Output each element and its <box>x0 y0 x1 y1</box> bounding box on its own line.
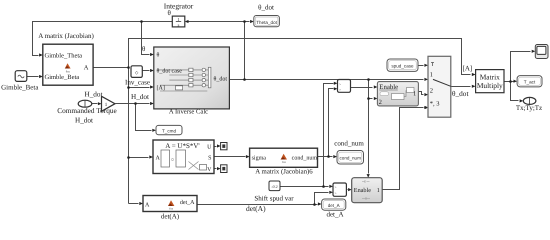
svg-text:A Inverse Calc: A Inverse Calc <box>169 109 208 116</box>
svg-text:2: 2 <box>379 99 382 106</box>
svg-text:U: U <box>207 145 212 151</box>
svg-text:T_act: T_act <box>524 79 536 84</box>
svg-text:T_cmd: T_cmd <box>162 129 176 134</box>
wire Inv_case constant to theta_dot case port <box>143 70 150 72</box>
wire SVD V output to terminator <box>215 168 217 170</box>
svg-text:θ_dot: θ_dot <box>258 4 274 12</box>
arrowhead into Gimble_Beta port <box>39 75 43 78</box>
constant -0.2 (Shift spud var) <box>254 181 294 202</box>
junction shift spud var <box>322 185 325 188</box>
arrowhead into mux input 2 <box>334 87 338 90</box>
matrix multiply block <box>476 70 504 93</box>
svg-text:fcn: fcn <box>169 207 173 210</box>
svg-text:Gimble_Beta: Gimble_Beta <box>1 83 39 91</box>
arrowhead into A Inverse port 4 <box>150 102 154 105</box>
svg-text:s: s <box>178 22 180 27</box>
svg-text:det(A): det(A) <box>246 204 266 213</box>
goto T_act <box>517 76 542 87</box>
svg-text:[A]: [A] <box>463 65 473 73</box>
subsystem Enable <box>377 82 418 106</box>
arrowhead into Enable input 1 <box>374 85 378 88</box>
junction H_dot to T_cmd <box>134 102 137 105</box>
wire A net: from Gimble output, riser x=128, top run y=38 to Matrix Multiply, branches to [A] port, SVD, det(A) <box>94 39 471 204</box>
scope block <box>535 45 548 59</box>
junction on theta wire <box>140 20 143 23</box>
arrowhead into Enable input 2 <box>374 97 378 100</box>
svg-text:A matrix (Jacobian): A matrix (Jacobian) <box>38 32 94 40</box>
outport Tx;Ty;Tz <box>516 97 542 112</box>
junction det_A <box>313 203 316 206</box>
arrowhead into T_act <box>514 80 518 83</box>
arrowhead into theta_dot case port <box>150 69 154 72</box>
goto cond_num <box>337 151 364 165</box>
svg-text:[A]: [A] <box>157 85 165 92</box>
svg-text:A: A <box>84 65 89 72</box>
goto T_cmd <box>156 125 182 134</box>
junction theta_dot top <box>243 20 246 23</box>
svg-text:cond_num: cond_num <box>334 139 364 147</box>
svg-text:spud_case: spud_case <box>391 63 414 68</box>
junction theta_dot at enable branch <box>367 78 370 81</box>
wire Gimble_Beta source to Gimble block <box>27 76 39 78</box>
svg-text:2: 2 <box>430 88 433 95</box>
junction A to SVD <box>127 156 130 159</box>
matlab fcn icon in Gimble block <box>65 63 71 73</box>
inport H_dot (Commanded Torque) <box>57 90 117 124</box>
svg-text:Theta_dot: Theta_dot <box>256 20 277 25</box>
integrator block 1/s (flipped) <box>172 16 185 27</box>
arrowhead into A Inverse [A] port <box>150 85 154 88</box>
arrowhead into det_A goto <box>318 202 322 205</box>
arrowhead into bottom mux input 1 <box>329 185 333 188</box>
matlab function block sigma/cond_num <box>250 148 318 167</box>
svg-text:A: A <box>156 155 161 161</box>
wire switch output theta_dot to Matrix Multiply input 2 <box>451 86 471 88</box>
svg-text:V: V <box>207 167 212 173</box>
arrowhead into T_cmd goto <box>152 129 156 132</box>
terminator for U <box>221 143 227 150</box>
svg-text:Tx;Ty;Tz: Tx;Ty;Tz <box>516 104 542 112</box>
arrowhead into bottom mux input 2 <box>329 191 333 194</box>
svg-text:A = U*S*V': A = U*S*V' <box>165 142 199 150</box>
svg-text:◇: ◇ <box>135 70 139 75</box>
svg-text:A: A <box>145 202 150 208</box>
junction cond_num <box>327 155 330 158</box>
A Inverse Calc inner icon <box>157 70 208 91</box>
wire Enable 1 output riser to switch port 3 <box>383 108 424 190</box>
goto det_A <box>322 199 346 219</box>
wire det_A from det(A) output to det_A goto and riser to bottom mux input 2 <box>198 193 329 205</box>
svg-text:θ_dot: θ_dot <box>452 89 468 98</box>
subsystem Enable 1 <box>352 178 383 203</box>
arrowhead into top mux input 1 <box>334 82 338 85</box>
mux top (before Enable) <box>338 80 351 93</box>
arrowhead into Tx outport <box>520 99 524 102</box>
junction enable in2 branch <box>367 97 370 100</box>
svg-text:det_A: det_A <box>328 203 341 208</box>
constant Inv_case <box>125 66 150 87</box>
arrowhead into switch control port <box>424 64 428 67</box>
svg-text:*, 3: *, 3 <box>430 101 440 108</box>
svg-text:det_A: det_A <box>326 211 343 219</box>
svg-text:cond_num: cond_num <box>339 156 361 161</box>
subsystem A Inverse Calc <box>154 47 230 109</box>
svg-text:Inv_case: Inv_case <box>125 78 150 86</box>
arrowhead into Scope <box>532 50 536 53</box>
svg-text:θ: θ <box>157 52 160 59</box>
junction theta_dot on main line <box>243 78 246 81</box>
wire theta feedback from integrator output to Gimble_Theta and A Inverse theta input <box>33 22 173 56</box>
svg-text:θ_dot: θ_dot <box>213 76 227 83</box>
wire SVD S output to sigma block <box>215 156 246 158</box>
arrowhead into Theta_dot goto <box>250 20 254 23</box>
arrowhead into sigma input <box>246 155 250 158</box>
arrowhead into gain <box>98 102 102 105</box>
arrowhead into integrator input (flipped block, input on right) <box>185 20 189 23</box>
svg-text:S: S <box>208 155 211 161</box>
mux bottom (before Enable 1) <box>333 183 346 196</box>
svg-text:Shift spud var: Shift spud var <box>254 194 294 202</box>
svg-text:det(A): det(A) <box>161 212 180 220</box>
wire spud_case to switch control port <box>419 65 424 67</box>
wire SVD U output to terminator <box>215 146 217 148</box>
svg-text:fcn: fcn <box>282 161 286 164</box>
svg-text:1: 1 <box>377 188 380 194</box>
junction A to [A] port <box>127 86 130 89</box>
matlab function block det(A) <box>143 196 197 221</box>
arrowhead into SVD input <box>149 155 153 158</box>
goto Theta_dot <box>254 16 280 27</box>
arrowhead into Matrix Multiply input 2 <box>472 85 476 88</box>
arrowhead into switch port 1 <box>424 78 428 81</box>
arrowhead into cond_num goto <box>333 155 337 158</box>
svg-text:>: > <box>339 82 341 86</box>
svg-text:○: ○ <box>171 158 174 163</box>
svg-text:>: > <box>335 186 337 190</box>
svg-text:1: 1 <box>430 72 433 79</box>
svg-text:Multiply: Multiply <box>477 81 503 90</box>
svg-text:>: > <box>335 191 337 195</box>
subsystem SVD A=U*S*V' <box>153 140 214 174</box>
svg-text:-0.2: -0.2 <box>271 184 277 189</box>
svg-text:Gimble_Beta: Gimble_Beta <box>45 74 80 81</box>
junction at Matrix Multiply output <box>509 80 512 83</box>
svg-text:sigma: sigma <box>252 155 267 161</box>
arrowhead into Enable 1 input <box>348 188 352 191</box>
svg-text:>: > <box>339 88 341 92</box>
svg-text:det_A: det_A <box>180 199 195 206</box>
arrowhead into switch port 3 <box>424 106 428 109</box>
arrowhead down into Enable 1 enable port <box>367 174 370 178</box>
svg-text:A matrix (Jacobian)6: A matrix (Jacobian)6 <box>255 168 313 175</box>
junction A at Gimble output <box>127 66 130 69</box>
arrowhead into terminator V <box>217 167 221 170</box>
gain block 1 <box>102 96 116 111</box>
svg-text:H_dot: H_dot <box>131 93 149 101</box>
wire top mux output to Enable input 1 <box>351 87 373 89</box>
multiport switch <box>428 56 451 117</box>
svg-text:cond_num: cond_num <box>292 154 318 161</box>
wire -0.2 constant to bottom mux input 1 and riser to top mux input 1 <box>281 84 334 187</box>
wire cond_num from sigma output to goto and riser to mux input 2 <box>318 89 334 157</box>
subsystem Gimble (A matrix Jacobian) <box>43 44 93 85</box>
arrowhead into A Inverse Calc port 1 <box>150 53 154 56</box>
wire bottom mux output to Enable 1 <box>347 189 348 191</box>
svg-text:H_dot: H_dot <box>75 117 93 125</box>
junction before switch port 3 <box>424 106 427 109</box>
wire Enable output to switch port 2 <box>419 92 424 95</box>
A Inverse Calc port labels <box>157 52 228 92</box>
wire H_dot from inport through gain to A Inverse port 4 and T_cmd <box>92 104 152 131</box>
arrowhead into Matrix Multiply input 1 <box>472 73 476 76</box>
arrowhead into switch port 2 <box>424 93 428 96</box>
wire Matrix Multiply output to T_act, Scope and Tx outport <box>505 52 531 101</box>
arrowhead into terminator U <box>217 144 221 147</box>
svg-text:Gimble_Theta: Gimble_Theta <box>45 53 83 60</box>
svg-text:fcn: fcn <box>66 69 70 73</box>
terminator for V <box>221 165 227 173</box>
wire theta_dot from A Inverse output: up to integrator input and Theta_dot goto, right to switch port 1 <box>189 22 424 174</box>
arrowhead into Gimble_Theta <box>39 53 43 56</box>
svg-text:Enable: Enable <box>354 187 371 194</box>
source block Gimble_Beta <box>1 71 39 92</box>
from spud_case <box>387 59 418 71</box>
arrowhead into det(A) input <box>139 202 143 205</box>
svg-text:H_dot: H_dot <box>85 90 103 98</box>
svg-text:θ_dot case: θ_dot case <box>157 68 183 75</box>
